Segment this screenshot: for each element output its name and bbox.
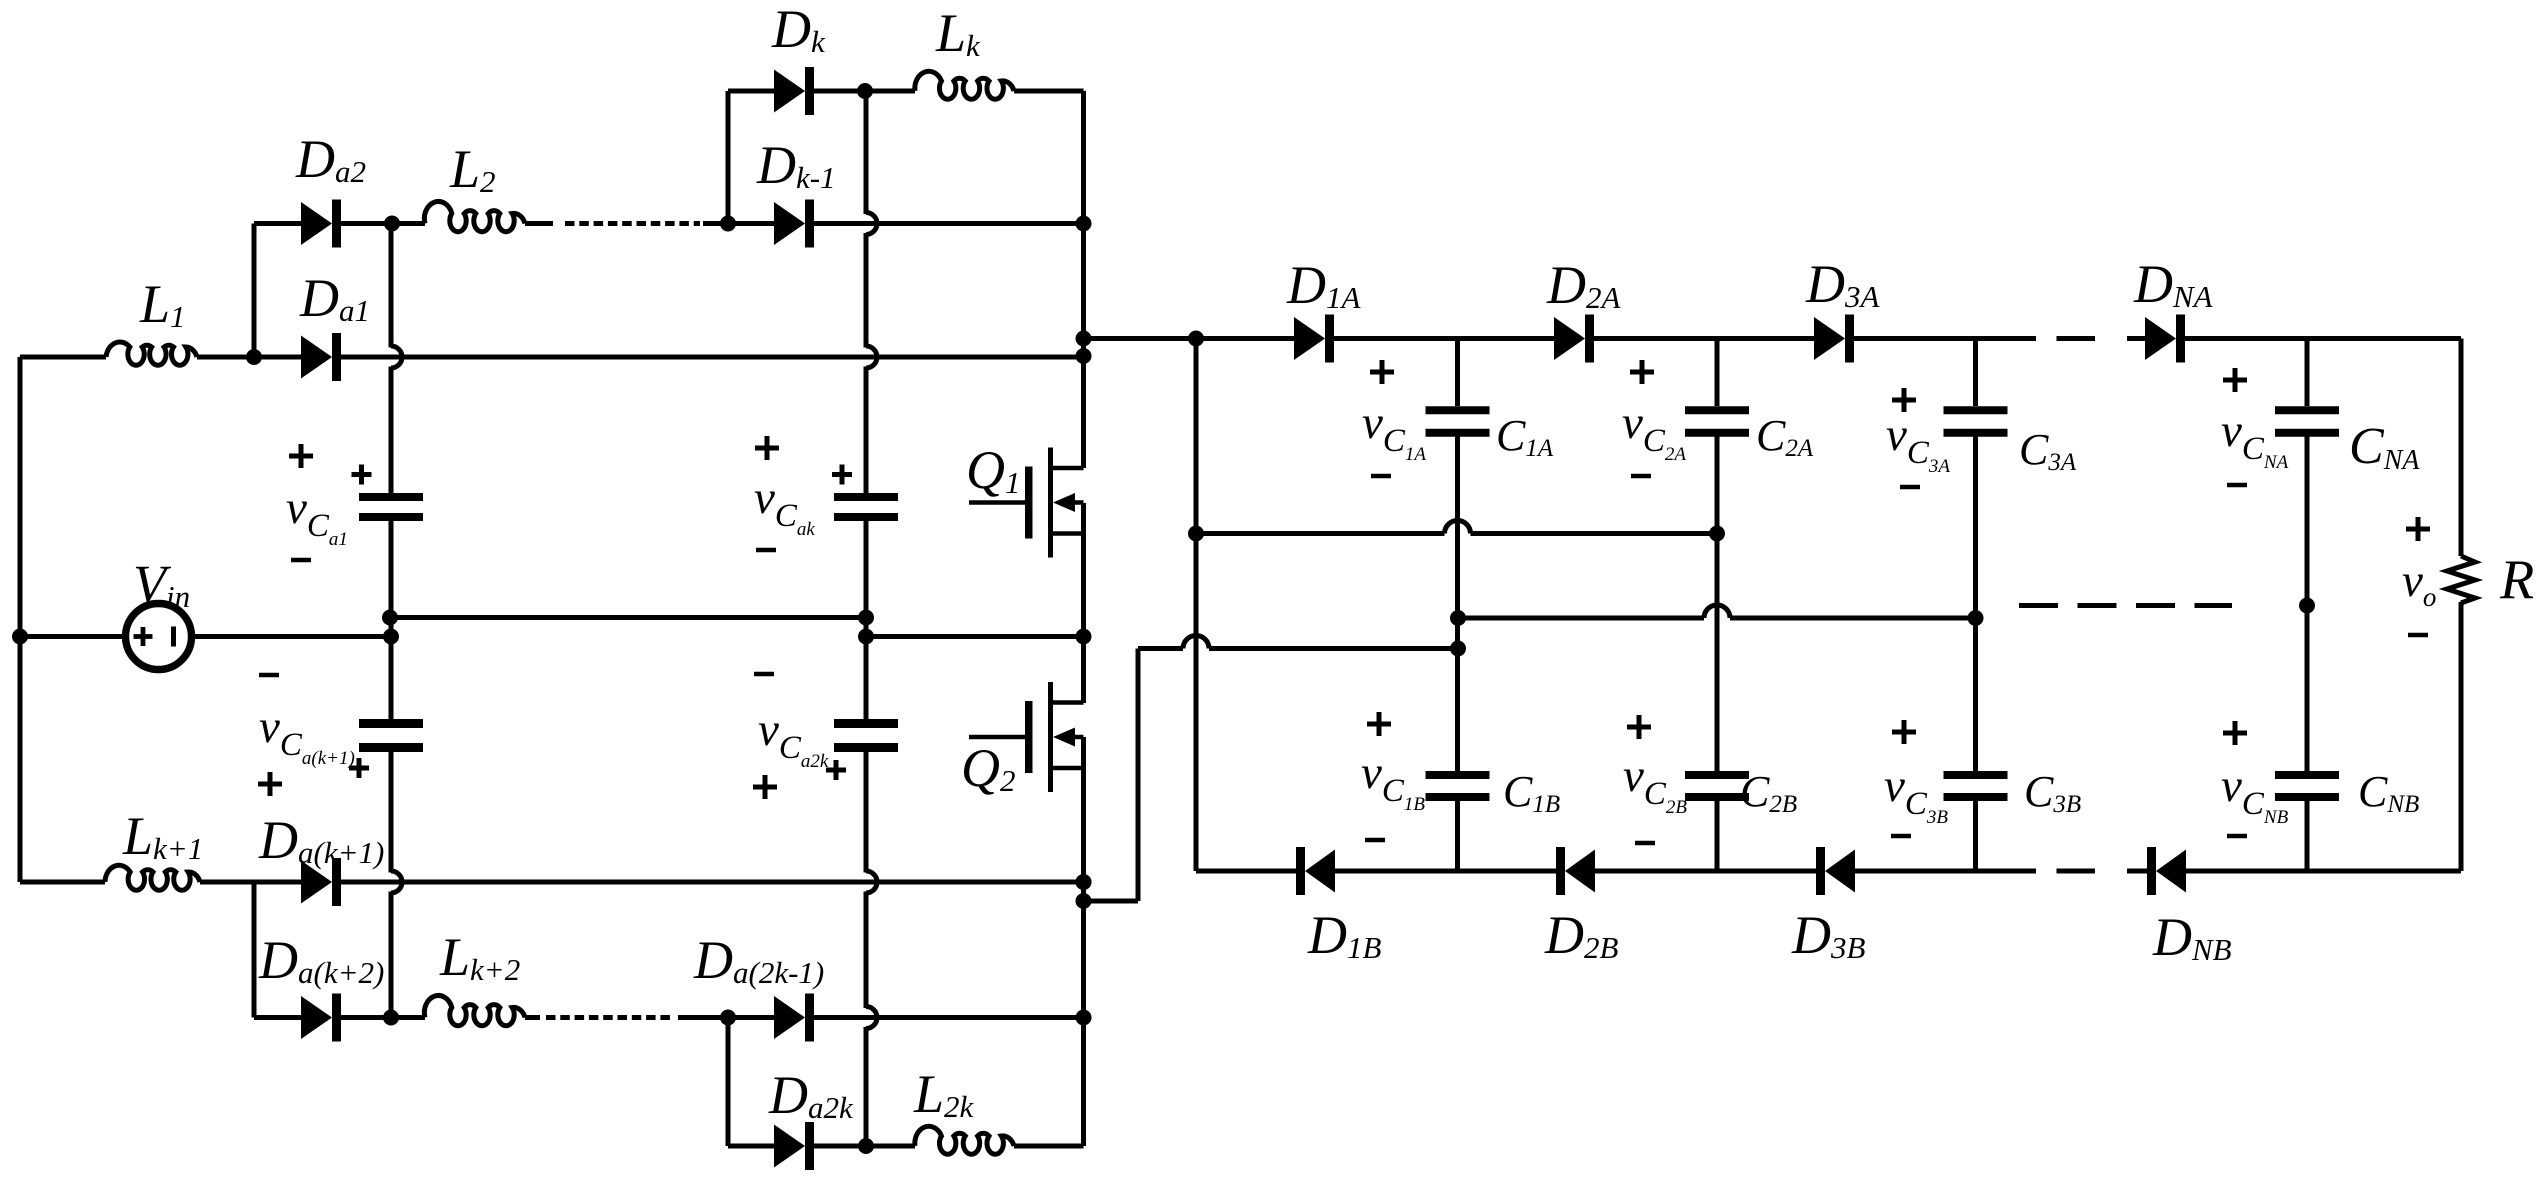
- wire vertical Q2 source down: [1081, 737, 1086, 1146]
- diode Dk-1: [774, 200, 814, 248]
- diode Da(2k-1): [774, 994, 814, 1042]
- wire L1 to node: [197, 355, 254, 360]
- node Q1 drain rail top: [1076, 331, 1092, 347]
- wire C2A/C2B middle lead: [1715, 437, 1720, 772]
- wire mid rail x866 segment: [864, 618, 869, 637]
- wire dashed continuation bottom: [546, 1015, 672, 1020]
- node Da(2k-1) row end: [1076, 1010, 1092, 1026]
- junction left edge / Vin wire: [12, 629, 28, 645]
- wire x391 down to Ca(k+1): [389, 637, 394, 720]
- wire Cak branch to cap: [864, 367, 869, 494]
- wire riser Dk row: [726, 91, 731, 224]
- node Ca1 bottom / mid rail: [382, 610, 398, 626]
- node Dk-1 row end: [1076, 216, 1092, 232]
- wire left edge vertical: [18, 357, 23, 882]
- node CNA bottom junction: [2299, 598, 2315, 614]
- polarity + vCNB: [2223, 721, 2247, 745]
- node top row start x1196: [1188, 331, 1204, 347]
- wire Lk to corner: [1014, 89, 1084, 94]
- wire Lk+1 to riser: [200, 880, 301, 885]
- node Vin rail at x866: [858, 629, 874, 645]
- wire C1A/C1B top lead: [1455, 339, 1460, 407]
- wire riser down: [252, 882, 257, 1018]
- polarity + vCa(k+1): [258, 772, 282, 796]
- polarity + vCak: [755, 436, 779, 460]
- wire row648 left part: [1138, 646, 1183, 651]
- wire Vin left lead: [20, 634, 122, 639]
- wire row648 right part: [1209, 646, 1458, 651]
- svg-text:R: R: [2499, 549, 2534, 611]
- wire Dk anode: [728, 89, 774, 94]
- diode D2A: [1554, 315, 1594, 363]
- polarity + Ca(k+1) small: [349, 758, 369, 778]
- wire dashed top row: [1997, 336, 2095, 341]
- wire x1196 vertical: [1194, 339, 1199, 872]
- polarity + vo: [2406, 517, 2430, 541]
- polarity - vCNB: [2227, 834, 2247, 839]
- wire CNA/CNB top lead: [2305, 339, 2310, 407]
- polarity + Ca2k small: [826, 760, 846, 780]
- capacitor Cak: [834, 493, 898, 521]
- wire x866 down to Ca2k: [864, 637, 869, 720]
- polarity - vC1A: [1371, 474, 1391, 479]
- wire C1A/C1B middle lead: [1455, 437, 1460, 772]
- capacitor Ca1: [359, 493, 423, 521]
- capacitor Ca2k: [834, 719, 898, 752]
- node row618 / C3A bottom: [1968, 610, 1984, 626]
- diode Da(k+2): [301, 994, 341, 1042]
- node jog junction: [1076, 893, 1092, 909]
- node row648 / C1B top: [1450, 641, 1466, 657]
- node Cak bottom / mid rail: [858, 610, 874, 626]
- wire node to L2k: [866, 1144, 915, 1149]
- transistor Q1: [969, 448, 1084, 558]
- polarity - vC3B: [1891, 834, 1911, 839]
- wire C3A/C3B bottom lead: [1973, 801, 1978, 871]
- node Q1 source / Q2 drain: [1076, 629, 1092, 645]
- diode D3A: [1814, 315, 1854, 363]
- polarity + vC1B: [1367, 712, 1391, 736]
- wire Cak branch mid: [864, 233, 869, 348]
- wire node to Lk: [866, 89, 915, 94]
- wire D3A out: [1854, 336, 1997, 341]
- wire D1B to D2B: [1335, 869, 1556, 874]
- inductor L1: [106, 342, 197, 365]
- diode DNB: [2147, 847, 2186, 895]
- wire D2A to D3A: [1594, 336, 1814, 341]
- diode D3B: [1816, 847, 1855, 895]
- wire x391 to Da(k+2) row: [389, 892, 394, 1018]
- wire Cak branch upper: [864, 91, 869, 214]
- wire Cak bottom lead: [864, 521, 869, 618]
- node Vin rail at x391: [383, 629, 399, 645]
- polarity - vCa2k: [754, 672, 774, 677]
- wire CNA/CNB middle lead: [2305, 437, 2310, 772]
- wire Dk-1 cathode to right: [814, 221, 1084, 226]
- wire riser to Da2 row: [252, 224, 257, 358]
- wire top row to D1A: [1084, 336, 1295, 341]
- wire Ca1 bottom lead: [389, 521, 394, 618]
- wire DNB to right corner: [2186, 869, 2461, 874]
- wire x866 to L2k row: [864, 1027, 869, 1146]
- diode D2B: [1556, 847, 1595, 895]
- wire row618 left part: [1458, 616, 1704, 621]
- wire D2B to D3B: [1595, 869, 1816, 874]
- wire node to Da(2k-1): [728, 1015, 774, 1020]
- transistor Q2: [969, 682, 1084, 792]
- capacitor C1B: [1426, 771, 1490, 801]
- wire C2A/C2B bottom lead: [1715, 801, 1720, 871]
- wire x866 between rows: [864, 892, 869, 1009]
- wire dashed mid row: [2019, 603, 2232, 608]
- wire B row from corner: [1196, 869, 1296, 874]
- diode D1B: [1296, 847, 1335, 895]
- polarity + vC2B: [1627, 715, 1651, 739]
- wire right edge lower: [2459, 602, 2464, 871]
- node C1A bottom junction: [1450, 610, 1466, 626]
- node Da(k+2) cathode junction: [383, 1010, 399, 1026]
- wire node to Dk-1: [728, 221, 774, 226]
- polarity + vCNA: [2223, 368, 2247, 392]
- polarity + vC3B: [1892, 720, 1916, 744]
- diode Dk: [774, 67, 814, 115]
- wire hop over C2A branch: [1704, 605, 1730, 618]
- wire top-left to L1: [20, 355, 106, 360]
- polarity + vC2A: [1630, 360, 1654, 384]
- capacitor C3B: [1944, 771, 2008, 801]
- node Dk/Lk junction: [857, 83, 873, 99]
- wire hop over row2: [866, 213, 877, 235]
- wire C1A/C1B bottom lead: [1455, 801, 1460, 871]
- wire right edge upper: [2459, 339, 2464, 557]
- polarity - vCNA: [2227, 483, 2247, 488]
- diode Da(k+1): [301, 858, 341, 906]
- wire Da(k+2) anode: [254, 1015, 301, 1020]
- wire L2 tail: [525, 221, 553, 226]
- node Da2k/L2k junction: [858, 1138, 874, 1154]
- wire C3A/C3B middle lead: [1973, 437, 1978, 772]
- wire bottom row left: [20, 880, 105, 885]
- diode Da1: [301, 333, 341, 381]
- wire Ca2k bottom lead: [864, 752, 869, 873]
- node x1196 / A-mid row: [1188, 526, 1204, 542]
- inductor L2: [424, 201, 525, 231]
- polarity + vC1A: [1370, 360, 1394, 384]
- wire mid rail 636: [866, 634, 1084, 639]
- wire D3B out: [1855, 869, 1997, 874]
- node Q2 source / bottom row: [1076, 874, 1092, 890]
- wire DNA to right corner: [2184, 336, 2461, 341]
- wire hop over Da(k+2) row: [866, 1007, 877, 1029]
- polarity - vo: [2408, 633, 2428, 638]
- wire to Lk+2: [391, 1015, 425, 1020]
- wire riser to Da2k row: [726, 1018, 731, 1147]
- capacitor C2B: [1685, 771, 1749, 801]
- wire Da(2k-1) cathode to right: [814, 1015, 1084, 1020]
- polarity + Cak small: [832, 465, 852, 485]
- polarity - vC2B: [1635, 841, 1655, 846]
- wire Da2 cathode to L2 node: [341, 221, 391, 226]
- polarity + Ca1 small: [352, 465, 372, 485]
- wire right vertical top segment: [1081, 91, 1086, 468]
- wire Vin right lead: [195, 634, 391, 639]
- wire Ca1 branch upper: [389, 224, 394, 348]
- wire hop over main row: [866, 346, 877, 368]
- wire hop over x1196: [1183, 636, 1209, 649]
- wire Lk+2 tail: [525, 1015, 540, 1020]
- node A-mid / C2A bottom: [1709, 526, 1725, 542]
- inductor L2k: [915, 1126, 1014, 1154]
- wire Da2 anode: [254, 221, 301, 226]
- polarity - vC1B: [1365, 838, 1385, 843]
- polarity - vCak: [756, 548, 776, 553]
- wire jog to x1138: [1084, 899, 1139, 904]
- wire hop over bottom row: [866, 871, 877, 893]
- node Dk-1 anode junction: [720, 216, 736, 232]
- capacitor CNB: [2275, 771, 2339, 801]
- wire node to L2: [391, 221, 425, 226]
- wire dashed continuation row2: [565, 221, 700, 226]
- source Vin: [126, 604, 192, 670]
- diode D1A: [1294, 315, 1334, 363]
- wire Da1 cathode to Q1 node: [341, 355, 1084, 360]
- polarity - vC2A: [1631, 474, 1651, 479]
- polarity - vC3A: [1900, 485, 1920, 490]
- wire D1A to D2A: [1334, 336, 1554, 341]
- wire Da(k+1) cathode to right: [341, 880, 1084, 885]
- node bottom row end: [1076, 874, 1092, 890]
- diode Da2k: [774, 1122, 814, 1170]
- inductor Lk+1: [105, 865, 200, 890]
- wire Dk cathode to Lk node: [814, 89, 866, 94]
- polarity + vCa1: [289, 444, 313, 468]
- polarity + vCa2k: [753, 775, 777, 799]
- diode DNA: [2145, 315, 2185, 363]
- wire Da2k anode: [728, 1144, 774, 1149]
- polarity + vC3A: [1892, 388, 1916, 412]
- capacitor C3A: [1944, 406, 2008, 437]
- node L1/Da1/Da2 junction: [246, 349, 262, 365]
- wire DNB stub: [2127, 869, 2147, 874]
- wire hop over bottom row: [391, 871, 402, 893]
- node main row end: [1076, 348, 1092, 364]
- wire Ca1 branch to cap: [389, 367, 394, 494]
- polarity - vCa1: [291, 558, 311, 563]
- capacitor C1A: [1426, 406, 1490, 437]
- wire C3A/C3B top lead: [1973, 339, 1978, 407]
- polarity - vCa(k+1): [259, 673, 279, 678]
- wire CNA/CNB bottom lead: [2305, 801, 2310, 871]
- capacitor CNA: [2275, 406, 2339, 437]
- wire L2k to corner: [1014, 1144, 1084, 1149]
- wire Da2k cathode to node: [814, 1144, 866, 1149]
- wire DNA anode stub: [2127, 336, 2145, 341]
- wire to Da(2k-1) node: [678, 1015, 728, 1020]
- wire Ca(k+1) bottom lead: [389, 752, 394, 873]
- wire mid rail x391 segment: [389, 618, 394, 637]
- inductor Lk+2: [424, 995, 525, 1025]
- capacitor Ca(k+1): [359, 719, 423, 752]
- wire Da(k+2) out: [341, 1015, 391, 1020]
- wire to Dk-1 node: [703, 221, 728, 226]
- wire dashed B row: [1997, 869, 2095, 874]
- node Da(2k-1) anode junction: [720, 1010, 736, 1026]
- wire x1138 vertical: [1136, 649, 1141, 902]
- inductor Lk: [915, 71, 1014, 99]
- capacitor C2A: [1685, 406, 1749, 437]
- wire row618 right part: [1730, 616, 1976, 621]
- wire vertical Q1-Q2: [1081, 503, 1086, 703]
- diode Da2: [301, 200, 341, 248]
- node Da2/L2 junction: [384, 216, 400, 232]
- resistor R: [2447, 556, 2475, 603]
- wire C2A/C2B top lead: [1715, 339, 1720, 407]
- wire hop over C1A branch: [1445, 521, 1471, 534]
- wire mid rail 617: [391, 615, 866, 620]
- wire A-mid row right: [1471, 531, 1718, 536]
- wire A-mid row left: [1196, 531, 1445, 536]
- wire hop over main row: [391, 346, 402, 368]
- wire node to Da1: [254, 355, 301, 360]
